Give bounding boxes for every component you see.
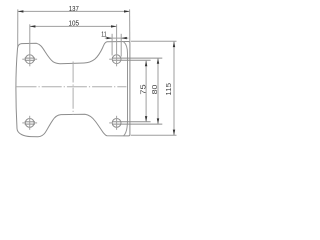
svg-text:105: 105: [69, 21, 80, 28]
svg-text:80: 80: [152, 84, 159, 94]
svg-text:115: 115: [164, 83, 173, 96]
hole bottom-left: [22, 116, 37, 130]
dim 75 vertical dimension: [145, 60, 147, 122]
plate outline: [16, 42, 130, 137]
horizontal centerline: [17, 86, 127, 88]
right side reference lines: [131, 41, 177, 135]
vertical centerline: [72, 62, 74, 115]
svg-text:11: 11: [101, 29, 106, 38]
hole top-right: [109, 24, 162, 66]
dim 11 (hole diameter): [105, 34, 129, 57]
svg-text:75: 75: [141, 84, 148, 94]
svg-text:137: 137: [69, 6, 79, 13]
dim 115 vertical dimension: [173, 41, 175, 135]
hole bottom-right: [109, 116, 162, 130]
dim 137 horizontal dimension: [18, 9, 130, 47]
hole top-left: [22, 24, 37, 66]
dim 105 horizontal dimension: [30, 25, 117, 27]
dim 80 vertical dimension: [157, 58, 159, 124]
fork leg curve (right side): [123, 42, 127, 136]
